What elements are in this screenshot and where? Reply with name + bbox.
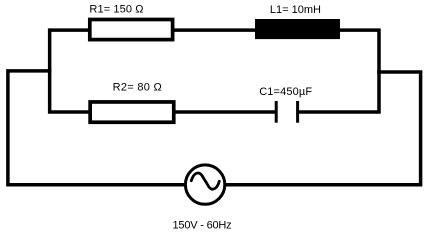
wire: right junction horizontal, outer-right vertical, bottom-right horizontal <box>225 72 421 185</box>
svg-text:C1=450µF: C1=450µF <box>259 86 312 98</box>
wire: R1 to L1 <box>172 28 257 32</box>
AC source V1 circle <box>185 165 224 204</box>
capacitor C1 right plate <box>296 101 299 123</box>
wire: top-left branch, inner-left vertical, middle-left branch <box>50 30 90 112</box>
resistor R2 <box>90 102 174 122</box>
resistor R1 <box>90 20 173 40</box>
wire: left junction horizontal, outer-left vertical, bottom-left horizontal <box>8 71 186 185</box>
capacitor C1 left plate <box>275 101 278 123</box>
svg-text:R1= 150 Ω: R1= 150 Ω <box>89 4 143 16</box>
svg-text:150V - 60Hz: 150V - 60Hz <box>173 219 232 231</box>
AC source sine wave <box>191 173 219 189</box>
wire: R2 to C1 <box>174 110 276 114</box>
svg-text:R2= 80 Ω: R2= 80 Ω <box>113 82 162 94</box>
svg-text:L1= 10mH: L1= 10mH <box>270 4 321 16</box>
inductor L1 <box>255 19 340 39</box>
wire: L1 to inner-right vertical, down, middle-right branch <box>298 30 379 112</box>
